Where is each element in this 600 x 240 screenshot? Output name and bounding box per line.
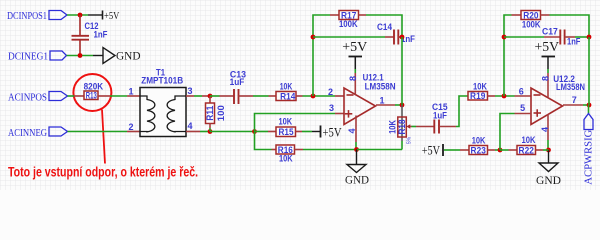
svg-text:GND: GND (536, 173, 561, 187)
svg-text:+5V: +5V (535, 39, 560, 54)
wire R23 to node L (488, 149, 501, 151)
resistor R15 10K (276, 116, 296, 137)
wire node A to C13 (210, 95, 234, 97)
resistor R19 10K (468, 82, 488, 101)
wire R19 to op-amp pin 6 (488, 95, 532, 97)
capacitor C14 1nF (377, 22, 415, 45)
svg-text:10K: 10K (522, 135, 536, 145)
wire R16 left stub (272, 149, 277, 151)
annotation pointer line (102, 110, 105, 164)
node B (secondary bottom) (208, 129, 213, 134)
svg-text:1nF: 1nF (94, 30, 108, 40)
svg-text:ZMPT101B: ZMPT101B (141, 76, 183, 86)
op-amp U12.1 LM358N (344, 73, 396, 125)
resistor R16 10K (276, 145, 295, 164)
ground GND (U12.1) (345, 150, 369, 187)
wire pin 4 (U12.1) to GND net (355, 116, 357, 150)
svg-text:R14: R14 (280, 91, 295, 101)
svg-text:1: 1 (379, 96, 384, 106)
wire C13 to R14 (239, 95, 277, 97)
wire C14 right stub (398, 36, 402, 38)
wire pin 5 stub (515, 113, 532, 115)
node C (R15/pin3 branch) (252, 129, 257, 134)
wire output U12.1 to node D (376, 104, 402, 106)
node K (C17 right) (587, 35, 592, 40)
wire feedback left vertical (U12.1) (313, 15, 330, 96)
wire node C to R15 (255, 131, 277, 133)
wire ACINPOS to R13 (68, 95, 85, 97)
wire C17 row (504, 36, 560, 38)
wire node C down to R16 (255, 132, 272, 150)
svg-text:C17: C17 (542, 27, 558, 37)
wire R22 to node H (536, 149, 549, 151)
capacitor C13 1uF (230, 69, 246, 104)
svg-text:10K: 10K (278, 116, 292, 126)
net label ACPWRSIG (583, 114, 595, 185)
wire GND node to R18 riser (357, 149, 402, 151)
wire output down through R18 (gray) (401, 105, 403, 141)
wire pin 3 stub (335, 113, 344, 115)
svg-text:DCINPOS1: DCINPOS1 (7, 10, 47, 22)
svg-text:Toto je vstupní odpor, o které: Toto je vstupní odpor, o kterém je řeč. (8, 165, 198, 180)
svg-text:8: 8 (348, 76, 358, 81)
resistor R14 10K (276, 82, 296, 102)
wire C14 row (313, 36, 394, 38)
node G (R19/feedback2) (502, 94, 507, 99)
wire node L to R22 (500, 149, 517, 151)
svg-text:ACINPOS: ACINPOS (8, 92, 47, 104)
ground GND (U12.2) (536, 150, 561, 187)
svg-text:4: 4 (347, 128, 357, 133)
wire node L up to pin 5 (500, 114, 515, 151)
svg-text:1uF: 1uF (230, 77, 245, 87)
wire +5V to pin 8 (U12.2) (547, 69, 549, 97)
wire +5V to pin 8 (354, 69, 356, 95)
node J (C17 left) (502, 35, 507, 40)
node I (U12.2 output) (587, 103, 592, 108)
wire feedback2 right vertical to output (588, 37, 590, 105)
svg-text:R19: R19 (470, 91, 485, 101)
capacitor C15 1uF (432, 102, 448, 133)
wire T1 pin 4 to node B (186, 131, 210, 133)
node E (C14 left) (311, 35, 316, 40)
node GND (U12.1) (354, 147, 359, 152)
svg-text:100K: 100K (339, 19, 358, 29)
wire node I to flag (588, 105, 590, 114)
wire DCINEG1 to junction (67, 55, 94, 57)
wire R20 to feedback2 right vertical (541, 15, 590, 37)
resistor R20 100K (521, 10, 541, 29)
svg-text:+5V: +5V (342, 39, 367, 54)
svg-text:+5V: +5V (323, 126, 342, 140)
supply +5V (U12.2 pin 8) (535, 39, 560, 69)
resistor R23 10K (469, 136, 488, 156)
node F (C14 right) (400, 35, 405, 40)
wire C15 to R19 (439, 96, 468, 127)
capacitor C17 1nF (542, 27, 581, 47)
svg-text:10K: 10K (280, 82, 293, 92)
ground GND (DC input) (93, 48, 141, 64)
svg-text:10K: 10K (473, 82, 487, 92)
svg-text:R11: R11 (205, 106, 215, 121)
svg-text:1uF: 1uF (433, 110, 447, 120)
svg-text:ACINNEG: ACINNEG (8, 127, 47, 139)
svg-text:5%: 5% (407, 136, 413, 144)
svg-text:R13: R13 (86, 90, 97, 100)
svg-text:1nF: 1nF (567, 36, 581, 46)
svg-text:LM358N: LM358N (556, 82, 585, 92)
svg-text:R15: R15 (279, 127, 294, 137)
wire C17 right stub (565, 36, 589, 38)
wire R14 to op-amp pin 2 (296, 95, 344, 97)
wire feedback2 left vertical (504, 15, 512, 96)
resistor R17 100K (339, 10, 359, 29)
wire R17 to feedback right vertical (359, 15, 403, 37)
svg-text:820K: 820K (84, 82, 104, 92)
wire +5V to R23 (444, 149, 469, 151)
wire node C up to pin 3 net (255, 114, 336, 132)
wire ACINNEG to T1 pin 2 (68, 131, 141, 133)
net label ACINPOS (8, 92, 68, 104)
node DCINPOS1/C12 junction (78, 13, 83, 18)
svg-text:10K: 10K (472, 136, 486, 146)
svg-text:3: 3 (329, 103, 334, 113)
svg-text:C14: C14 (377, 22, 392, 32)
wire output U12.2 to node I (563, 104, 589, 106)
wire R16 to GND node (295, 149, 358, 151)
net label ACINNEG (8, 127, 68, 139)
svg-text:+5V: +5V (104, 10, 119, 22)
wire R18 bottom to GND net (401, 141, 403, 150)
svg-text:7: 7 (572, 95, 577, 105)
svg-text:8: 8 (541, 76, 551, 81)
node H (GND U12.2) (546, 148, 551, 153)
wire R20 left stub (512, 14, 522, 16)
svg-text:5: 5 (520, 103, 525, 113)
wire R13 to T1 pin 1 (98, 95, 140, 97)
supply +5V (R23) (422, 144, 443, 158)
svg-text:10K: 10K (388, 120, 398, 134)
supply +5V (U12.1 pin 8) (342, 39, 367, 69)
capacitor C12 (72, 15, 108, 56)
node A (secondary top) (208, 94, 213, 99)
svg-text:100K: 100K (522, 19, 541, 29)
svg-text:1: 1 (128, 87, 133, 97)
resistor R13 820K (84, 82, 104, 101)
wire T1 pin 3 to node A (186, 95, 210, 97)
annotation circle around R13 (73, 74, 111, 111)
svg-text:R18: R18 (397, 120, 407, 135)
svg-text:4: 4 (540, 127, 550, 132)
wire R17 left stub (330, 14, 339, 16)
wire R15 to +5V (296, 131, 313, 133)
wire R18 wiper to C15 (412, 126, 435, 128)
op-amp U12.2 LM358N (531, 74, 585, 124)
transformer T1 ZMPT101B (140, 68, 186, 137)
resistor R22 10K (517, 135, 536, 156)
svg-text:R22: R22 (519, 145, 534, 155)
svg-text:GND: GND (116, 49, 141, 63)
svg-text:100: 100 (216, 105, 226, 121)
svg-text:R23: R23 (471, 145, 486, 155)
svg-text:3: 3 (187, 86, 192, 96)
svg-text:GND: GND (345, 173, 369, 187)
svg-text:ACPWRSIG: ACPWRSIG (583, 130, 595, 185)
node D (U12.1 output) (400, 103, 405, 108)
svg-text:4: 4 (187, 121, 192, 131)
svg-text:LM358N: LM358N (365, 81, 396, 91)
wire node B to R15 node (210, 131, 255, 133)
net label DCINPOS1 (7, 10, 67, 22)
supply +5V (R15) (312, 126, 342, 140)
node inverting input U12.1 (311, 94, 316, 99)
node L (R23/R22/pin5) (498, 148, 503, 153)
potentiometer R18 10K (388, 117, 413, 144)
svg-text:10K: 10K (279, 154, 293, 164)
svg-text:2: 2 (128, 122, 133, 132)
svg-text:2: 2 (328, 87, 333, 97)
wire feedback right vertical to output (401, 37, 403, 105)
resistor R11 100 (burden) (205, 96, 226, 132)
svg-text:6: 6 (519, 87, 524, 97)
svg-text:+5V: +5V (422, 144, 440, 158)
wire DCINPOS1 to junction (67, 14, 88, 16)
node DCINEG1/C12 junction (78, 53, 83, 58)
svg-text:DCINEG1: DCINEG1 (8, 51, 48, 63)
net label DCINEG1 (8, 51, 67, 63)
wire pin 4 (U12.2) to GND net (547, 114, 549, 150)
supply +5V (DC input) (88, 10, 119, 22)
